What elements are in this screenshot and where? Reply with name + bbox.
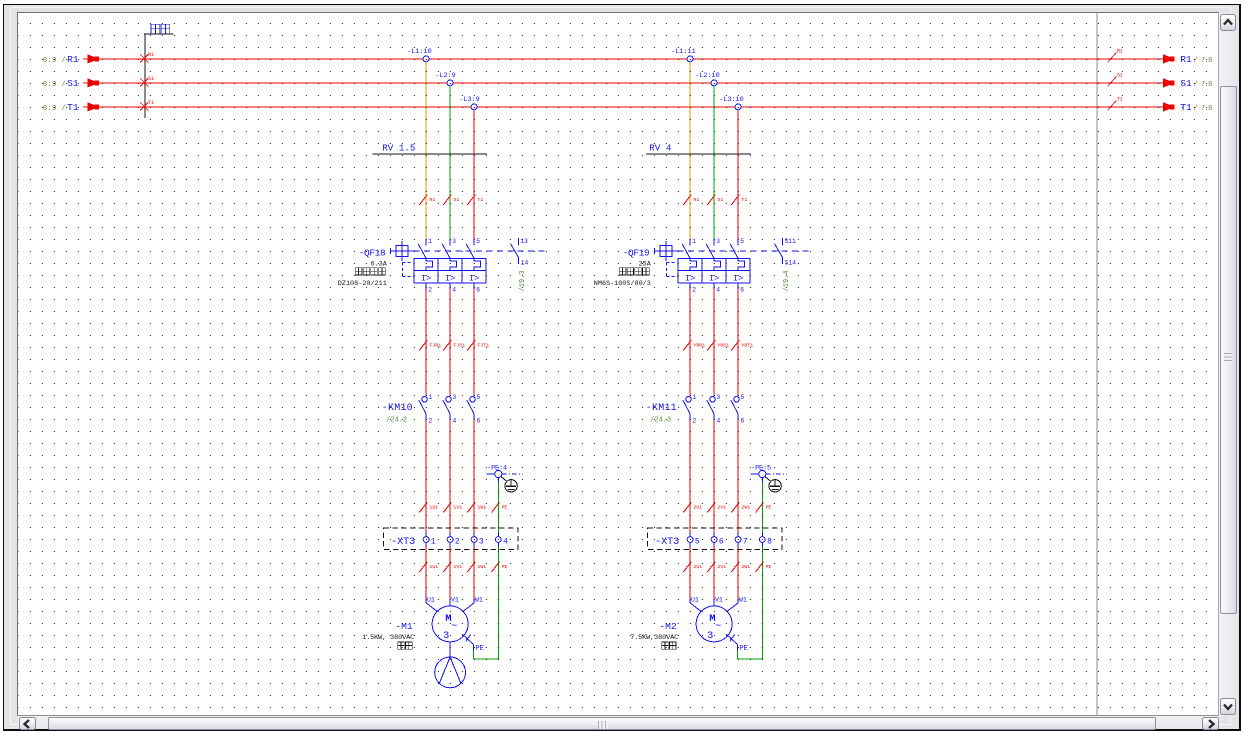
- bus S1 destination xref 7.0: [1180, 78, 1212, 89]
- connection point -L2:9: [435, 72, 455, 86]
- motor -M2: [696, 605, 732, 641]
- wire label PE (above terminals): [755, 502, 771, 512]
- contactor -KM11 pole 1 (pins 1/2): [682, 394, 696, 425]
- wire label 2U1 (below terminals): [683, 561, 702, 571]
- contactor -KM10 pole 3 (pins 5/6): [466, 394, 480, 425]
- wire PE drop (green): [761, 482, 763, 531]
- bus T1 tap mark at 钢排: [140, 100, 154, 110]
- breaker -QF19 pole 1 (pins 1/2): [682, 238, 696, 293]
- terminal -XT3:6: [711, 531, 724, 546]
- wire -QF19 pin 4 to -KM11: [713, 289, 715, 396]
- bus R1 tap mark at 钢排: [140, 52, 154, 62]
- wire motor PE to PE rail (green): [473, 651, 498, 659]
- wire terminal to motor phase 1: [689, 547, 691, 599]
- bus S1 tap mark at 钢排: [140, 76, 154, 86]
- terminal -XT3:2: [447, 531, 460, 546]
- wire motor PE to PE rail (green): [737, 651, 762, 659]
- wire -KM11 pin 6 to terminal strip: [737, 420, 739, 532]
- motor -M2 lead W1: [726, 596, 746, 611]
- wire phase drop -L3:10: [737, 110, 739, 239]
- breaker -QF19 pole 2 (pins 3/4): [706, 238, 720, 293]
- bus R1 source xref 8:9: [42, 54, 78, 65]
- motor -M2 PE lead: [726, 634, 747, 653]
- wire label PE (below terminals): [755, 561, 771, 571]
- breaker -QF18 operator (square-cross): [390, 241, 413, 261]
- wire label FJT1: [467, 340, 489, 350]
- breaker -QF18 pole 2 (pins 3/4): [442, 238, 456, 293]
- wire label 1V1 (above terminals): [443, 502, 462, 512]
- terminal -XT3:3: [471, 531, 484, 546]
- breaker -QF19 trip linkage bracket: [666, 262, 678, 276]
- wire label R1: [683, 194, 699, 204]
- bus R1: [83, 54, 1175, 63]
- wire terminal to motor phase 2: [713, 547, 715, 599]
- bus T1 source xref 8:9: [42, 102, 78, 113]
- bus R1 destination xref 7.0: [1180, 54, 1212, 65]
- PE terminal -PE:4: [486, 464, 523, 482]
- wire -QF18 pin 6 to -KM10: [473, 289, 475, 396]
- ground symbol: [765, 476, 781, 491]
- wire -QF19 pin 2 to -KM11: [689, 289, 691, 396]
- connection point -L3:10: [719, 96, 743, 110]
- bus T1 wire label near destination: [1107, 96, 1122, 110]
- wire label YBS1: [707, 340, 729, 350]
- breaker -QF19 ratings text: [593, 260, 651, 288]
- bus R1 wire label near destination: [1107, 48, 1122, 62]
- bus S1 source xref 8:9: [42, 78, 78, 89]
- contactor -KM10 pole 2 (pins 3/4): [442, 394, 456, 425]
- terminal -XT3:5: [687, 531, 700, 546]
- breaker -QF19 operator (square-cross): [654, 241, 677, 261]
- breaker -QF18 linkage (dashed): [413, 249, 548, 251]
- motor -M2 lead V1: [714, 596, 723, 606]
- wire label 1U1 (above terminals): [419, 502, 438, 512]
- wire label 1W1 (below terminals): [467, 561, 486, 571]
- wire phase drop -L3:9: [473, 110, 475, 239]
- motor -M1: [432, 605, 468, 641]
- wire label T1: [731, 194, 747, 204]
- wire label 2V1 (above terminals): [707, 502, 726, 512]
- wire terminal to motor phase 3: [473, 547, 475, 599]
- ground symbol: [501, 476, 517, 491]
- bus T1: [83, 102, 1175, 111]
- bus S1 wire label near destination: [1107, 72, 1122, 86]
- breaker -QF19 magnetic elements I>: [678, 270, 750, 283]
- wire -QF18 pin 2 to -KM10: [425, 289, 427, 396]
- wire label PE (above terminals): [491, 502, 507, 512]
- breaker -QF19 linkage (dashed): [677, 249, 812, 251]
- bus T1 destination xref 7.0: [1180, 102, 1212, 113]
- motor -M1 lead V1: [450, 596, 459, 606]
- wire phase drop -L2:10: [713, 86, 715, 239]
- wire label FJR1: [419, 340, 441, 350]
- breaker -QF18 trip linkage bracket: [402, 262, 414, 276]
- breaker -QF18 pole 3 (pins 5/6): [466, 238, 480, 293]
- wire terminal to motor phase 3: [737, 547, 739, 599]
- wire label 2W1 (below terminals): [731, 561, 750, 571]
- breaker -QF19 aux contact S11/S14: [774, 237, 796, 266]
- motor -M1 PE lead: [462, 634, 483, 653]
- motor -M2 tag and ratings: [630, 620, 678, 648]
- wire -KM11 pin 2 to terminal strip: [689, 420, 691, 532]
- wire label R1: [419, 194, 435, 204]
- contactor -KM10 tag: [381, 403, 412, 425]
- motor -M1 tag and ratings: [362, 620, 414, 648]
- motor -M1 lead U1: [426, 596, 437, 611]
- terminal -XT3:8: [759, 531, 772, 546]
- connection point -L2:10: [695, 72, 719, 86]
- breaker -QF18 ratings text: [337, 260, 387, 288]
- wire label 1U1 (below terminals): [419, 561, 438, 571]
- sheet border line: [1095, 13, 1097, 716]
- wire -KM11 pin 4 to terminal strip: [713, 420, 715, 532]
- connection point -L1:11: [671, 48, 695, 62]
- terminal strip -XT3: [383, 528, 518, 550]
- wire -QF18 pin 4 to -KM10: [449, 289, 451, 396]
- bus S1: [83, 78, 1175, 87]
- fuse group label RV 1.5: [372, 142, 487, 153]
- wire label 1W1 (above terminals): [467, 502, 486, 512]
- contactor -KM11 tag: [645, 403, 676, 425]
- terminal strip -XT3: [647, 528, 782, 550]
- busbar label 钢排: [144, 24, 174, 34]
- wire label 2W1 (above terminals): [731, 502, 750, 512]
- terminal -XT3:4: [495, 531, 508, 546]
- wire label YBT1: [731, 340, 753, 350]
- contactor -KM10 pole 1 (pins 1/2): [418, 394, 432, 425]
- wire phase drop -L2:9: [449, 86, 451, 239]
- busbar tap line: [143, 34, 145, 118]
- wire label 1V1 (below terminals): [443, 561, 462, 571]
- breaker -QF18 thermal overload elements: [414, 258, 486, 270]
- wire label S1: [443, 194, 459, 204]
- wire phase drop -L1:11: [689, 62, 691, 239]
- wire label T1: [467, 194, 483, 204]
- wire PE below terminals (green): [761, 547, 763, 659]
- fuse group label RV 4: [646, 142, 751, 153]
- terminal -XT3:1: [423, 531, 436, 546]
- wire label 2U1 (above terminals): [683, 502, 702, 512]
- wire label 2V1 (below terminals): [707, 561, 726, 571]
- breaker -QF18 magnetic elements I>: [414, 270, 486, 283]
- motor -M1 shaft: [449, 641, 451, 656]
- wire label S1: [707, 194, 723, 204]
- wire -QF19 pin 6 to -KM11: [737, 289, 739, 396]
- wire PE drop (green): [497, 482, 499, 531]
- breaker -QF18 aux contact 13/14: [510, 237, 528, 266]
- breaker -QF19 pole 3 (pins 5/6): [730, 238, 744, 293]
- wire -KM10 pin 6 to terminal strip: [473, 420, 475, 532]
- motor -M1 lead W1: [462, 596, 482, 611]
- connection point -L3:9: [459, 96, 479, 110]
- fan symbol: [434, 657, 465, 688]
- breaker -QF19 thermal overload elements: [678, 258, 750, 270]
- wire terminal to motor phase 1: [425, 547, 427, 599]
- wire terminal to motor phase 2: [449, 547, 451, 599]
- wire -KM10 pin 2 to terminal strip: [425, 420, 427, 532]
- wire label YBR1: [683, 340, 705, 350]
- wire PE below terminals (green): [497, 547, 499, 659]
- breaker -QF18 pole 1 (pins 1/2): [418, 238, 432, 293]
- PE terminal -PE:5: [750, 464, 787, 482]
- motor -M2 lead U1: [690, 596, 701, 611]
- wire -KM10 pin 4 to terminal strip: [449, 420, 451, 532]
- wire label PE (below terminals): [491, 561, 507, 571]
- wire label FJS1: [443, 340, 465, 350]
- terminal -XT3:7: [735, 531, 748, 546]
- connection point -L1:10: [407, 48, 431, 62]
- wire phase drop -L1:10: [425, 62, 427, 239]
- contactor -KM11 pole 3 (pins 5/6): [730, 394, 744, 425]
- contactor -KM11 pole 2 (pins 3/4): [706, 394, 720, 425]
